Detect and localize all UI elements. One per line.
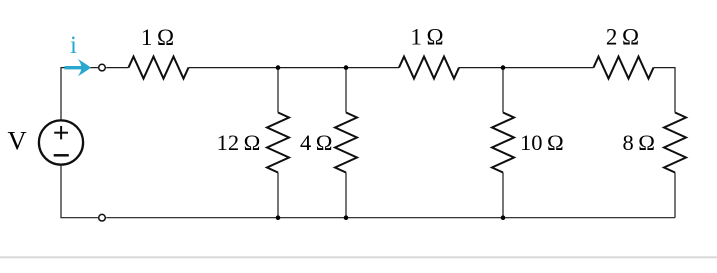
resistor 1ohm left (series) (129, 57, 189, 79)
wire node B to 4ohm (345, 68, 347, 113)
wire 4ohm to bottom (345, 173, 347, 218)
wire top-left segment (61, 68, 98, 120)
voltage source V (39, 120, 83, 164)
node C dot bottom (501, 215, 506, 220)
wire R2 to node C (459, 67, 594, 69)
wire node C to 10ohm (502, 68, 504, 113)
wire 10ohm to bottom (502, 173, 504, 218)
node B dot bottom (344, 215, 349, 220)
resistor 2ohm right (series) (594, 57, 654, 79)
wire bottom (106, 217, 675, 219)
terminal bottom (open circle) (99, 214, 106, 221)
resistor 12ohm (shunt) (267, 113, 289, 173)
svg-text:1 Ω: 1 Ω (410, 25, 443, 50)
svg-text:i: i (70, 32, 77, 59)
svg-text:1 Ω: 1 Ω (141, 25, 174, 50)
resistor 4ohm (shunt) (335, 113, 357, 173)
wire R1 to node B (189, 67, 400, 69)
wire source to bottom-left (61, 165, 98, 217)
svg-text:2 Ω: 2 Ω (606, 25, 639, 50)
wire right vertical lower (674, 173, 676, 218)
resistor 8ohm (shunt) (664, 113, 686, 173)
wire 12ohm to bottom (277, 173, 279, 218)
node A dot bottom (276, 215, 281, 220)
resistor 10ohm (shunt) (492, 113, 514, 173)
svg-text:V: V (8, 126, 27, 156)
svg-text:10 Ω: 10 Ω (520, 130, 564, 155)
svg-text:4 Ω: 4 Ω (300, 130, 332, 155)
node B dot top (344, 65, 349, 70)
terminal top (open circle) (99, 64, 106, 71)
node A dot top (276, 65, 281, 70)
node C dot top (501, 65, 506, 70)
svg-text:8 Ω: 8 Ω (623, 130, 655, 155)
wire node A to 12ohm (277, 68, 279, 113)
wire R3 to right corner (654, 68, 676, 113)
resistor 1ohm middle (series) (399, 57, 459, 79)
svg-text:12 Ω: 12 Ω (217, 130, 261, 155)
wire terminal to R1 (106, 67, 128, 69)
bottom rule (0, 256, 717, 258)
current arrow i (65, 59, 92, 76)
